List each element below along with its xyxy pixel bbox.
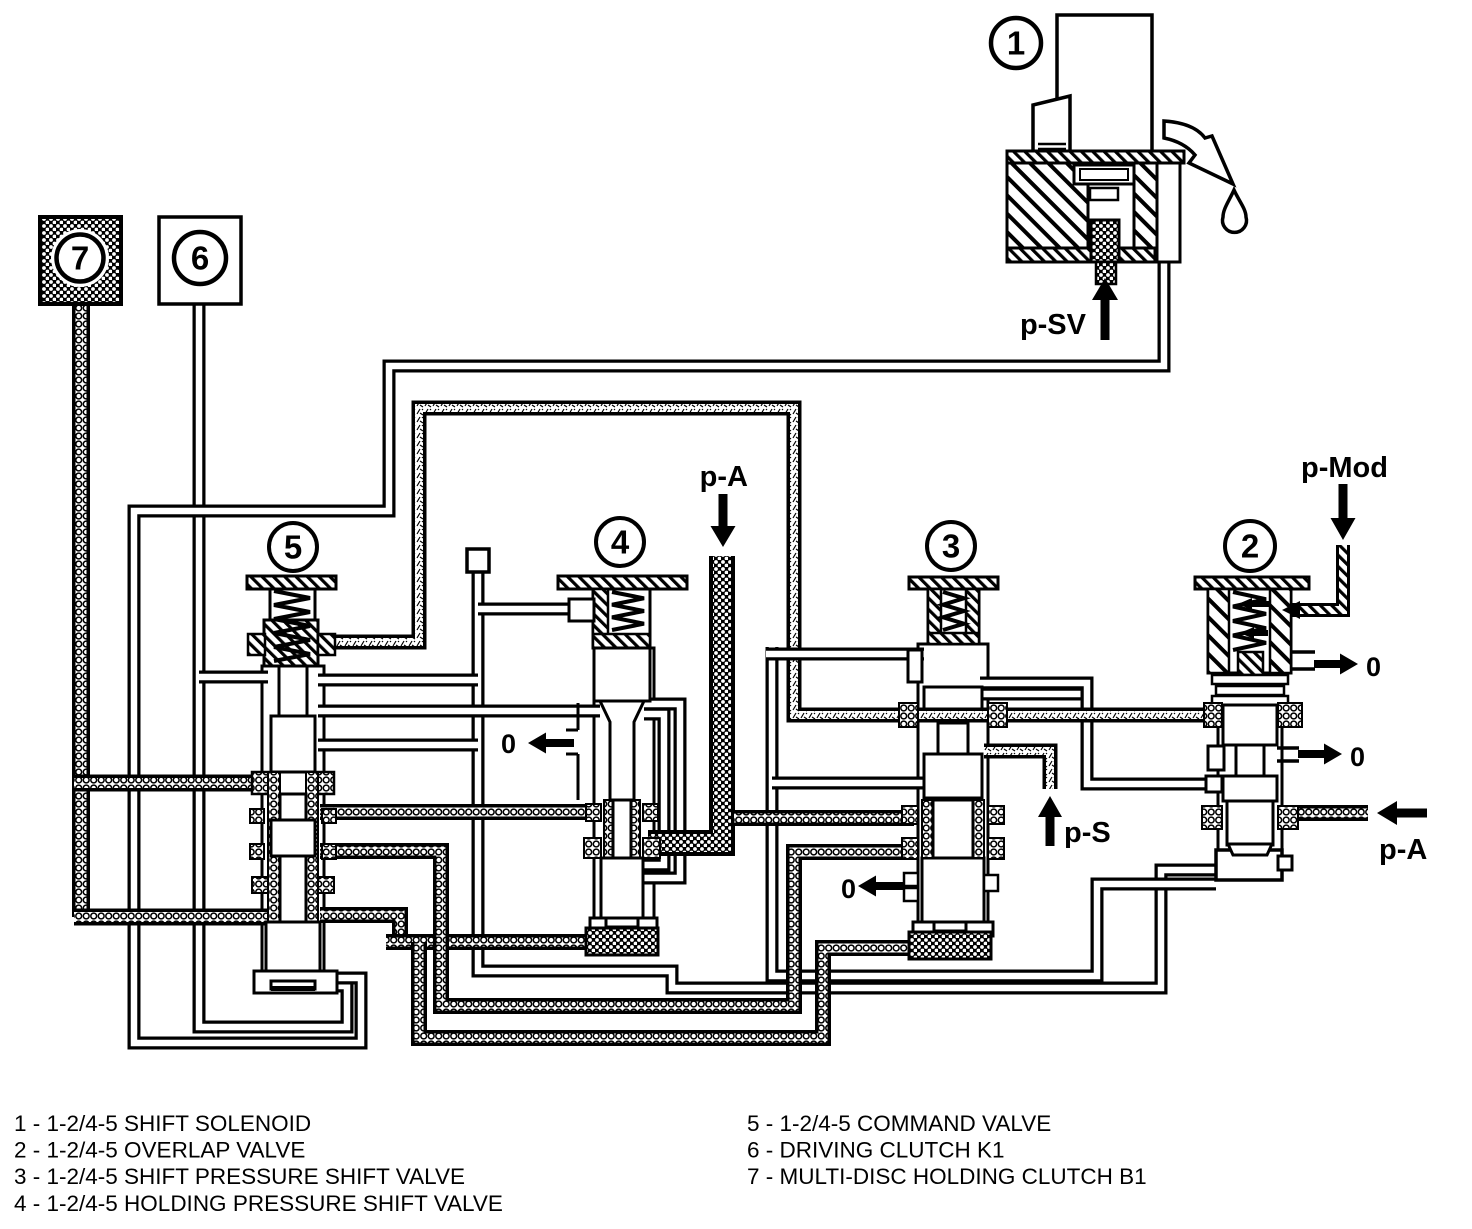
svg-text:p-S: p-S [1064,817,1111,849]
svg-text:0: 0 [1366,652,1381,682]
svg-text:2 - 1-2/4-5 OVERLAP VALVE: 2 - 1-2/4-5 OVERLAP VALVE [14,1138,305,1163]
svg-text:0: 0 [501,729,516,759]
svg-text:0: 0 [1350,742,1365,772]
svg-text:5 - 1-2/4-5 COMMAND VALVE: 5 - 1-2/4-5 COMMAND VALVE [747,1111,1051,1136]
svg-text:3: 3 [942,528,960,565]
svg-text:p-SV: p-SV [1020,309,1087,341]
svg-text:6 - DRIVING CLUTCH K1: 6 - DRIVING CLUTCH K1 [747,1138,1005,1163]
svg-text:p-A: p-A [700,461,748,493]
svg-text:6: 6 [191,240,209,277]
svg-text:1 - 1-2/4-5 SHIFT SOLENOID: 1 - 1-2/4-5 SHIFT SOLENOID [14,1111,311,1136]
svg-text:5: 5 [284,529,302,566]
svg-text:0: 0 [841,874,856,904]
svg-text:2: 2 [1241,528,1259,565]
svg-text:3 - 1-2/4-5 SHIFT PRESSURE SHI: 3 - 1-2/4-5 SHIFT PRESSURE SHIFT VALVE [14,1164,465,1189]
svg-text:7 - MULTI-DISC HOLDING CLUTCH: 7 - MULTI-DISC HOLDING CLUTCH B1 [747,1164,1147,1189]
svg-text:p-A: p-A [1379,834,1427,866]
svg-text:4 - 1-2/4-5 HOLDING PRESSURE S: 4 - 1-2/4-5 HOLDING PRESSURE SHIFT VALVE [14,1191,503,1216]
svg-text:p-Mod: p-Mod [1301,452,1388,484]
svg-text:1: 1 [1007,25,1025,62]
svg-text:4: 4 [611,524,630,561]
svg-text:7: 7 [71,240,89,277]
